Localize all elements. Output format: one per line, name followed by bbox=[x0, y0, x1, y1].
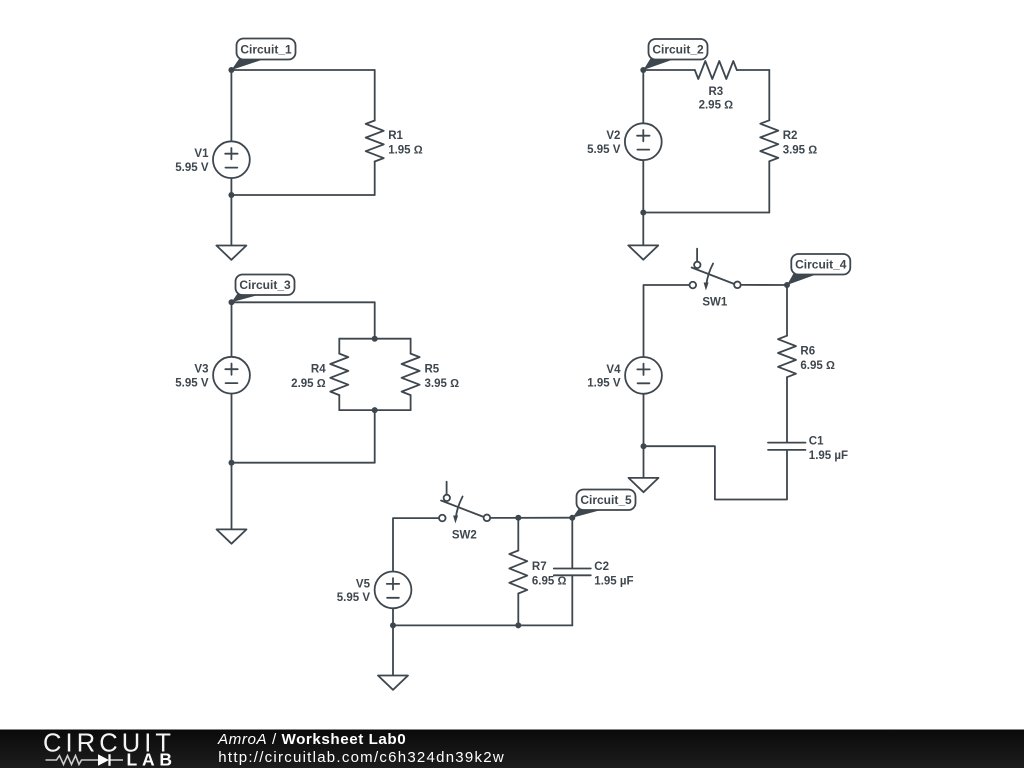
voltage source V1 bbox=[175, 141, 250, 178]
node Circuit_1 top bbox=[228, 67, 234, 73]
svg-text:3.95 Ω: 3.95 Ω bbox=[783, 144, 818, 156]
voltage source V2 bbox=[587, 123, 662, 160]
capacitor C2 bbox=[554, 561, 634, 588]
resistor R3 bbox=[695, 61, 737, 111]
svg-text:R4: R4 bbox=[311, 363, 326, 375]
resistor R6 bbox=[778, 336, 835, 378]
wire top right Circuit_2 bbox=[737, 69, 770, 71]
svg-text:R1: R1 bbox=[388, 130, 403, 142]
ground Circuit_2 bbox=[628, 245, 658, 259]
logo LAB wordmark bbox=[127, 750, 174, 768]
wire top Circuit_3 bbox=[232, 301, 375, 303]
flag label Circuit_4 bbox=[787, 254, 850, 285]
wire left lower Circuit_3 bbox=[231, 394, 233, 530]
svg-text:R3: R3 bbox=[708, 86, 723, 98]
svg-text:R5: R5 bbox=[425, 363, 440, 375]
wire left upper Circuit_2 bbox=[642, 70, 644, 123]
svg-text:R6: R6 bbox=[800, 346, 815, 358]
wire V5 bottom Circuit_5 bbox=[392, 608, 394, 675]
svg-text:V3: V3 bbox=[194, 364, 208, 376]
ground Circuit_3 bbox=[217, 529, 247, 543]
wire right upper Circuit_1 bbox=[374, 70, 376, 121]
svg-text:V5: V5 bbox=[356, 578, 371, 590]
ground Circuit_1 bbox=[216, 246, 246, 260]
switch SW2 bbox=[439, 482, 490, 542]
wire V4 top to switch Circuit_4 bbox=[644, 285, 690, 357]
svg-text:5.95 V: 5.95 V bbox=[587, 144, 621, 156]
node Circuit_5 C2 top bbox=[569, 515, 575, 521]
resistor R1 bbox=[366, 121, 423, 162]
flag label Circuit_3 bbox=[232, 275, 295, 303]
junction Circuit_4 bottom bbox=[641, 443, 647, 449]
logo CIRCUIT wordmark bbox=[43, 730, 174, 758]
wire left lower Circuit_2 bbox=[642, 160, 644, 245]
svg-text:AmroA / Worksheet Lab0: AmroA / Worksheet Lab0 bbox=[217, 731, 406, 748]
svg-text:5.95 V: 5.95 V bbox=[175, 377, 209, 389]
svg-text:http://circuitlab.com/c6h324dn: http://circuitlab.com/c6h324dn39k2w bbox=[218, 749, 504, 766]
wire V5 top to switch Circuit_5 bbox=[393, 518, 439, 571]
wire R4 branch lower bbox=[338, 395, 340, 410]
wire right upper Circuit_2 bbox=[768, 70, 770, 120]
svg-text:C1: C1 bbox=[809, 435, 824, 447]
wire V4 bottom Circuit_4 bbox=[643, 394, 645, 478]
wire parallel top rail Circuit_3 bbox=[339, 338, 410, 340]
voltage source V5 bbox=[337, 572, 412, 609]
svg-text:5.95 V: 5.95 V bbox=[337, 592, 371, 604]
node Circuit_4 top right bbox=[784, 282, 790, 288]
node Circuit_5 R7 bottom bbox=[515, 622, 521, 628]
svg-text:2.95 Ω: 2.95 Ω bbox=[291, 378, 326, 390]
svg-text:V2: V2 bbox=[606, 130, 620, 142]
wire R5 branch upper bbox=[410, 339, 412, 354]
node parallel top bbox=[372, 336, 378, 342]
svg-text:3.95 Ω: 3.95 Ω bbox=[425, 378, 460, 390]
svg-text:R7: R7 bbox=[532, 561, 547, 573]
wire left upper Circuit_3 bbox=[231, 302, 233, 356]
junction Circuit_1 bottom bbox=[228, 192, 234, 198]
svg-text:6.95 Ω: 6.95 Ω bbox=[532, 576, 567, 588]
flag label Circuit_1 bbox=[231, 39, 295, 71]
svg-text:1.95 µF: 1.95 µF bbox=[594, 576, 633, 588]
svg-text:1.95 V: 1.95 V bbox=[587, 378, 621, 390]
wire C2 branch lower bbox=[571, 575, 573, 625]
wire bottom Circuit_3 bbox=[232, 462, 375, 464]
logo diode bbox=[98, 754, 123, 766]
wire R5 branch lower bbox=[410, 395, 412, 410]
footer url bbox=[218, 749, 504, 766]
wire bottom Circuit_1 bbox=[231, 194, 374, 196]
svg-text:V1: V1 bbox=[194, 148, 209, 160]
svg-text:SW2: SW2 bbox=[452, 530, 477, 542]
svg-text:SW1: SW1 bbox=[702, 297, 728, 309]
wire middle lower Circuit_3 bbox=[374, 410, 376, 463]
svg-text:LAB: LAB bbox=[127, 750, 174, 768]
wire C1 bottom loop Circuit_4 bbox=[644, 446, 788, 499]
svg-text:2.95 Ω: 2.95 Ω bbox=[699, 99, 734, 111]
ground Circuit_5 bbox=[378, 676, 408, 690]
resistor R4 bbox=[291, 354, 348, 396]
wire bottom rail Circuit_5 bbox=[393, 624, 572, 626]
svg-text:R2: R2 bbox=[783, 130, 798, 142]
switch SW1 bbox=[690, 249, 741, 309]
wire left upper Circuit_1 bbox=[230, 70, 232, 141]
capacitor C1 bbox=[768, 435, 848, 462]
wire C2 branch upper bbox=[571, 518, 573, 569]
junction Circuit_2 bottom bbox=[640, 210, 646, 216]
flag label Circuit_2 bbox=[643, 39, 707, 70]
wire switch to nodes Circuit_5 bbox=[491, 517, 573, 519]
wire middle down Circuit_3 bbox=[374, 302, 376, 338]
svg-text:Circuit_4: Circuit_4 bbox=[795, 258, 847, 272]
wire R7 branch lower bbox=[517, 594, 519, 626]
ground Circuit_4 bbox=[629, 478, 659, 492]
node Circuit_2 top bbox=[640, 67, 646, 73]
junction Circuit_5 bottom left bbox=[390, 622, 396, 628]
wire bottom Circuit_2 bbox=[643, 212, 769, 214]
wire right lower Circuit_1 bbox=[374, 162, 376, 196]
wire right upper Circuit_4 bbox=[786, 285, 788, 336]
footer bar bbox=[0, 730, 1024, 768]
svg-text:1.95 µF: 1.95 µF bbox=[809, 450, 848, 462]
wire top Circuit_1 bbox=[231, 69, 374, 71]
node Circuit_5 R7 top bbox=[515, 515, 521, 521]
voltage source V4 bbox=[587, 357, 662, 394]
wire left lower Circuit_1 bbox=[230, 178, 232, 245]
svg-text:Circuit_1: Circuit_1 bbox=[240, 43, 292, 57]
svg-text:Circuit_3: Circuit_3 bbox=[239, 278, 291, 292]
wire top left Circuit_2 bbox=[643, 69, 695, 71]
voltage source V3 bbox=[175, 357, 250, 394]
svg-text:V4: V4 bbox=[606, 364, 621, 376]
svg-text:Circuit_5: Circuit_5 bbox=[580, 493, 632, 507]
wire R6 to C1 Circuit_4 bbox=[786, 377, 788, 442]
svg-text:6.95 Ω: 6.95 Ω bbox=[800, 360, 835, 372]
node Circuit_3 top bbox=[229, 299, 235, 305]
svg-text:Circuit_2: Circuit_2 bbox=[652, 43, 704, 57]
wire switch to node Circuit_4 bbox=[741, 284, 787, 286]
resistor R5 bbox=[402, 354, 459, 396]
footer title AmroA / Worksheet Lab0 bbox=[217, 731, 406, 748]
node parallel bottom bbox=[372, 407, 378, 413]
wire right lower Circuit_2 bbox=[768, 161, 770, 212]
wire R7 branch upper bbox=[517, 518, 519, 551]
logo resistor zigzag bbox=[46, 756, 99, 765]
wire R4 branch upper bbox=[338, 339, 340, 354]
svg-text:1.95 Ω: 1.95 Ω bbox=[388, 145, 423, 157]
svg-text:5.95 V: 5.95 V bbox=[175, 162, 209, 174]
resistor R7 bbox=[509, 551, 566, 594]
resistor R2 bbox=[760, 120, 817, 161]
junction Circuit_3 bottom left bbox=[229, 460, 235, 466]
flag label Circuit_5 bbox=[572, 490, 635, 518]
svg-text:C2: C2 bbox=[594, 561, 609, 573]
wire parallel bottom rail Circuit_3 bbox=[339, 409, 410, 411]
